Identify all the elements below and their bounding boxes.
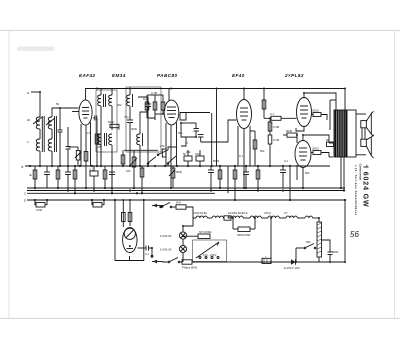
- tube V3 EF40 envelope: [237, 100, 252, 129]
- svg-text:0,1M: 0,1M: [151, 91, 158, 95]
- anode wire V2 top: [168, 89, 170, 101]
- wire x228 down: [227, 166, 229, 193]
- svg-text:6,3V0,3A: 6,3V0,3A: [160, 248, 172, 252]
- bus rail C y=193: [27, 192, 215, 194]
- band switch contact S3c: [168, 156, 176, 163]
- grid resistor chain x270: R 0.2M upper: [268, 122, 272, 131]
- svg-text:E 250 C 200: E 250 C 200: [284, 266, 300, 270]
- tube V4 PL82 upper envelope: [297, 98, 312, 127]
- svg-text:DrA: DrA: [176, 201, 181, 205]
- svg-text:PL82 PL82: PL82 PL82: [193, 211, 207, 215]
- V2 grid left wire: [155, 113, 165, 115]
- trimmer cap T1: [59, 108, 61, 130]
- svg-text:2×PL82: 2×PL82: [284, 73, 304, 78]
- svg-text:500k: 500k: [108, 120, 115, 124]
- V5 pins down: [302, 168, 304, 189]
- V3 pin wires down: [237, 126, 239, 166]
- chain fuse: [224, 216, 231, 220]
- cap C11: [280, 169, 286, 171]
- mains line from stub: [163, 261, 168, 264]
- top HT bus wire: [97, 88, 345, 90]
- svg-text:47: 47: [185, 141, 189, 145]
- svg-text:110 - 240V: 110 - 240V: [203, 253, 217, 257]
- svg-text:25k: 25k: [186, 150, 191, 154]
- wire speaker bottom: [356, 154, 366, 156]
- stub wire to heater line: [152, 205, 163, 207]
- svg-text:EM34: EM34: [112, 73, 126, 78]
- tone cap 0,01: [208, 169, 214, 171]
- heater EM34: [212, 216, 223, 218]
- svg-text:0,3: 0,3: [86, 131, 90, 135]
- fuse DrA: [176, 205, 186, 209]
- AF switch lever: [158, 150, 168, 155]
- transformer secondary wires down: [340, 175, 342, 188]
- cap C1 plates: [58, 129, 63, 131]
- det wire join: [181, 122, 196, 124]
- ballast resistor 450ohm: [238, 227, 250, 232]
- mains fuse: [182, 260, 192, 264]
- svg-text:EF40: EF40: [232, 73, 245, 78]
- eye grid resistor Rb: [128, 213, 132, 222]
- screen resistor R2: [95, 134, 99, 144]
- IF1 secondary coil: [109, 95, 112, 106]
- svg-text:A: A: [27, 91, 29, 95]
- primary left vertical: [329, 100, 331, 130]
- cathode cap C2: [66, 146, 71, 148]
- V5 anode wire: [303, 135, 329, 143]
- cap 70p osc: [127, 119, 133, 121]
- wire L2 bottom to rail: [51, 151, 53, 166]
- cap C5: [65, 171, 71, 173]
- det bus drop x211.7: [211, 113, 213, 166]
- svg-text:5000: 5000: [213, 159, 220, 163]
- heater PABC80: [228, 216, 243, 218]
- dial lamp La2: [179, 245, 186, 252]
- V3 screen resistor: [253, 140, 257, 149]
- IF1 bottom wires: [100, 145, 102, 166]
- wire L1 join: [39, 129, 41, 139]
- resistor R11: [218, 170, 222, 179]
- junction dots misc: [39, 88, 346, 264]
- V4 cathode wire: [296, 127, 304, 131]
- resistor R12: [233, 170, 237, 179]
- resistor R13: [256, 170, 260, 179]
- svg-text:0,1: 0,1: [284, 159, 288, 163]
- selector arrow: [196, 242, 219, 258]
- loudspeaker LS1: [361, 111, 374, 136]
- cap 10k box: [196, 156, 204, 161]
- V4 anode wire up: [304, 93, 336, 110]
- anode load resistor x264: [262, 100, 266, 109]
- cap C4: [44, 171, 50, 173]
- wire L1 bottom to rail: [39, 151, 41, 166]
- svg-text:27k: 27k: [160, 144, 165, 148]
- junction dots rail 190-200: [34, 189, 346, 201]
- page border top: [0, 30, 400, 32]
- det wire horizontal: [180, 112, 210, 114]
- svg-text:250Ω: 250Ω: [312, 109, 319, 113]
- stub wire to mains line: [152, 261, 163, 263]
- mains switch S2: [168, 261, 170, 263]
- speaker field wires down: [340, 157, 342, 175]
- resistor R4 vertical: [153, 102, 157, 110]
- eye target wire right: [138, 247, 147, 249]
- IF1 sec wires: [100, 89, 102, 96]
- resistor R4b vertical: [161, 102, 165, 110]
- cap C10: [243, 171, 249, 173]
- voltage selector box: [193, 240, 227, 262]
- svg-text:50k: 50k: [306, 240, 311, 244]
- screen bus drop x216.5: [216, 89, 218, 167]
- junction square: [151, 255, 154, 258]
- dropper tap wire: [322, 240, 331, 248]
- svg-text:0,2M: 0,2M: [273, 125, 280, 129]
- page border bottom: [0, 318, 400, 320]
- V2 internals: [167, 107, 176, 118]
- svg-text:C?: C?: [284, 211, 288, 215]
- wire x345 down to mains: [344, 200, 346, 262]
- transformer secondary left wire: [329, 142, 333, 144]
- heater PL82a: [268, 216, 279, 218]
- faint pencil smudge: [17, 47, 54, 52]
- wire V1 pin g3 down: [85, 125, 87, 188]
- resistor R10: [140, 168, 144, 177]
- transformer primary bottom wire: [329, 156, 333, 158]
- svg-text:0,1: 0,1: [145, 252, 149, 256]
- heater extra: [305, 216, 313, 218]
- junction dots rail 166: [29, 165, 291, 167]
- heater chain wire: [186, 207, 196, 218]
- coil core L1: [41, 116, 43, 152]
- mains switch S1: [160, 206, 162, 208]
- wire x290 down: [289, 166, 291, 200]
- wire V1 pin k down: [80, 124, 82, 166]
- svg-text:20k: 20k: [117, 103, 122, 107]
- cap C6 box: [90, 171, 98, 176]
- svg-text:EAF42: EAF42: [79, 73, 96, 78]
- loudspeaker LS2: [361, 135, 374, 158]
- rectifier diode E250C200: [291, 259, 296, 265]
- osc coil wires: [129, 89, 131, 96]
- eye grid resistor Ra: [122, 213, 126, 222]
- magic eye cathode dot: [129, 245, 131, 247]
- trimmer pot below rail mid: [93, 203, 102, 208]
- svg-text:50k: 50k: [260, 149, 265, 153]
- svg-text:5000: 5000: [286, 129, 293, 133]
- cap 5k box: [184, 156, 192, 161]
- svg-text:NTC150Ω: NTC150Ω: [199, 230, 212, 234]
- svg-text:20: 20: [27, 118, 31, 122]
- svg-text:6,3V0,3A: 6,3V0,3A: [160, 234, 172, 238]
- padder cap row: cap Cp1: [145, 103, 151, 105]
- svg-text:C6L6: C6L6: [264, 211, 271, 215]
- svg-text:70: 70: [117, 127, 121, 131]
- magic eye shadow line: [126, 230, 133, 238]
- wire antenna down: [39, 92, 41, 117]
- svg-text:ECH81 EC92 E: ECH81 EC92 E: [228, 211, 248, 215]
- detector wire to V3 grid: [201, 120, 237, 142]
- mixer grid wire: [147, 118, 155, 120]
- tube V5 PL82 lower envelope: [295, 141, 311, 168]
- svg-text:I 6024 GW: I 6024 GW: [362, 166, 369, 208]
- svg-text:0,1: 0,1: [89, 167, 93, 171]
- wire V1 anode top: [86, 89, 98, 101]
- L4 wires: [140, 112, 148, 134]
- svg-text:PABC80: PABC80: [157, 73, 178, 78]
- V3 internals: [240, 108, 248, 120]
- trimmer arrow on L2a: [46, 118, 55, 125]
- lamp chain wires: [182, 226, 184, 232]
- bus rail y=190.5: [27, 190, 345, 192]
- svg-text:250Ω: 250Ω: [312, 147, 319, 151]
- IF1 bottom coil b: [109, 134, 112, 145]
- page border left: [8, 31, 10, 319]
- IF1 primary coil: [98, 95, 101, 106]
- cap C7: [109, 171, 115, 173]
- IF1 bottom coil a: [98, 134, 101, 145]
- bus rail D y=200: [27, 199, 345, 201]
- resistor R6: [73, 170, 77, 179]
- L4 core: [142, 133, 144, 146]
- svg-text:2M: 2M: [98, 145, 103, 149]
- electrolytic block: [262, 258, 271, 263]
- resistor 500k horizontal: [110, 124, 119, 127]
- V5 internals: [299, 148, 307, 160]
- wire L2 mid: [51, 129, 53, 139]
- resistor 27k: [162, 149, 166, 157]
- osc coil L3: [127, 95, 130, 106]
- bus rail y=188: [27, 187, 345, 189]
- heater EAF42: [196, 216, 207, 218]
- svg-text:0,1: 0,1: [239, 154, 243, 158]
- wire chain to mains: [270, 218, 272, 262]
- trimmer arrow on L1a: [33, 117, 42, 124]
- svg-text:10k: 10k: [126, 169, 131, 173]
- tube V1 EAF42 envelope: [79, 100, 92, 125]
- page border right: [394, 31, 396, 319]
- HT bus drop to transformer: [344, 89, 346, 111]
- svg-text:D: D: [24, 199, 26, 203]
- trimmer pot below rail left: [36, 203, 45, 208]
- heater PL82b: [286, 216, 297, 218]
- svg-text:Philips 8042: Philips 8042: [182, 266, 198, 270]
- coupling cap V3->V4: [271, 116, 281, 120]
- resistor R3 vertical: [145, 102, 149, 110]
- V2 pin wires down: [165, 123, 167, 166]
- svg-text:470k: 470k: [36, 208, 43, 212]
- antenna coil L1b: [36, 139, 40, 151]
- V5 grid stopper: [313, 151, 321, 155]
- det cap a: [194, 128, 200, 130]
- series dropper hatched: [317, 222, 322, 257]
- osc core: [132, 94, 134, 107]
- smoothing cap right: [328, 251, 333, 253]
- anode wire V3 top: [243, 89, 245, 100]
- middle row: resistor 4k: [33, 170, 37, 179]
- bus rail AVC y=166: [25, 165, 330, 167]
- antenna coil L1a: [36, 117, 40, 129]
- svg-text:C: C: [24, 192, 26, 196]
- svg-text:50k: 50k: [178, 131, 183, 135]
- IF transformer shield box 1: [96, 90, 117, 152]
- svg-text:56: 56: [350, 230, 359, 239]
- R 0.2M lower: [268, 135, 272, 144]
- svg-text:(2. Teil des Schaltbildes): (2. Teil des Schaltbildes): [354, 168, 358, 216]
- wire grid V1: [60, 107, 79, 109]
- volume pot 500k: [171, 168, 175, 178]
- wire V1 pin a down: [90, 122, 92, 166]
- resistor R5: [56, 170, 60, 179]
- wire top g: [147, 94, 163, 96]
- svg-text:450Ω/10W: 450Ω/10W: [237, 233, 251, 237]
- svg-text:50: 50: [56, 102, 60, 106]
- svg-text:10k: 10k: [195, 152, 200, 156]
- coupling cap right of V1: [94, 116, 96, 121]
- svg-text:0,2M: 0,2M: [273, 138, 280, 142]
- grid stopper V4: [313, 113, 321, 117]
- resistor R1: [84, 152, 88, 162]
- IF1 core: [103, 94, 105, 107]
- wire speaker top: [356, 113, 366, 115]
- heater wire: [207, 217, 212, 219]
- tuning coil L2a: [48, 117, 52, 129]
- phase splitter cap to V5: [287, 133, 297, 137]
- pot R9 500k: [132, 157, 136, 167]
- det cap b: [198, 134, 204, 136]
- cathode pot P1: [76, 151, 80, 161]
- IF1 bottom core: [104, 133, 106, 146]
- speaker series links: [361, 128, 363, 139]
- osc coil L4: [137, 134, 140, 145]
- magic eye screen: [124, 228, 135, 239]
- svg-text:300k: 300k: [131, 127, 138, 131]
- osc shield box 2: [126, 87, 161, 152]
- NTC resistor: [198, 234, 210, 239]
- V4 internals: [300, 106, 308, 118]
- wire L2 top: [52, 108, 60, 117]
- AF switch line: [124, 149, 158, 151]
- heater line from stub: [159, 206, 163, 208]
- svg-text:0,1: 0,1: [270, 112, 274, 116]
- svg-text:50: 50: [326, 138, 330, 142]
- svg-text:50k: 50k: [305, 171, 310, 175]
- eye cathode wire: [129, 256, 131, 261]
- svg-text:500k: 500k: [176, 170, 183, 174]
- eye bypass cap: [145, 246, 147, 251]
- magic eye left loop wire: [115, 200, 144, 261]
- svg-text:B: B: [22, 165, 24, 169]
- tube V2 PABC80 envelope: [164, 100, 179, 125]
- dial lamp La1: [179, 232, 186, 239]
- det tap box: [180, 113, 186, 121]
- selector taps: [199, 257, 219, 259]
- cap 50 box: [327, 142, 334, 147]
- resistor R8: [121, 155, 125, 164]
- output transformer frame: [347, 110, 356, 157]
- svg-text:70p: 70p: [124, 115, 129, 119]
- svg-text:5000: 5000: [332, 250, 339, 254]
- HT switch right: [304, 247, 306, 249]
- coil core L2: [54, 116, 56, 152]
- tuning coil L2b: [48, 139, 52, 151]
- resistor R7: [103, 170, 107, 179]
- tube V6 EM34 magic eye envelope: [123, 228, 137, 253]
- junction dots rail 188: [34, 187, 342, 189]
- output transformer Tr core hatch: [334, 110, 347, 157]
- V1 internals: grid dashes: [82, 108, 89, 119]
- band switch contact S3a: [148, 157, 156, 164]
- heater EF40: [250, 216, 261, 218]
